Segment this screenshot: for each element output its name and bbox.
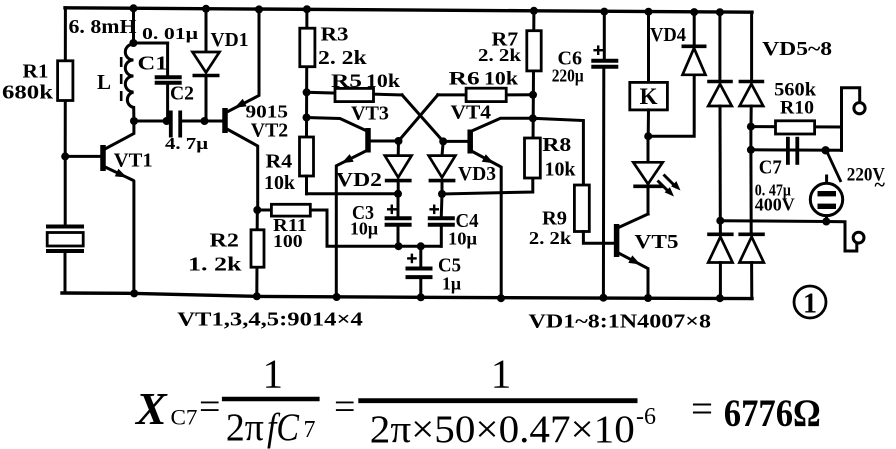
node: K / VD4 / LED junction bbox=[644, 132, 652, 140]
node: VT3 emitter on 0V rail bbox=[333, 293, 341, 301]
node: C7/R10/lamp junction bbox=[821, 146, 829, 154]
svg-text:VT4: VT4 bbox=[451, 102, 492, 124]
svg-text:K: K bbox=[640, 84, 658, 109]
svg-text:400V: 400V bbox=[755, 195, 795, 215]
resistor R4 bbox=[300, 137, 314, 176]
relay coil K bbox=[647, 12, 650, 83]
wire: VD3 node to R8 bottom bbox=[442, 178, 533, 194]
node: R2 bottom on 0V rail bbox=[253, 292, 261, 300]
wire: R10 right lead down to C7 wire bbox=[840, 127, 843, 150]
node: R3 top on +V rail bbox=[303, 5, 311, 13]
wire: R4 bottom to VD2 cathode node bbox=[307, 192, 399, 195]
svg-text:2π×50×0.47×10: 2π×50×0.47×10 bbox=[370, 408, 635, 449]
svg-text:2. 2k: 2. 2k bbox=[529, 228, 572, 248]
node: bridge left column on +V rail bbox=[716, 8, 724, 16]
resistor R2 bbox=[255, 210, 259, 296]
svg-text:VD1~8:1N4007×8: VD1~8:1N4007×8 bbox=[529, 311, 712, 333]
resistor R5 bbox=[307, 92, 402, 95]
svg-text:R10: R10 bbox=[780, 98, 814, 119]
svg-text:1: 1 bbox=[803, 289, 817, 320]
terminal B (220V input) bbox=[853, 232, 864, 243]
svg-text:2. 2k: 2. 2k bbox=[478, 45, 521, 65]
wire: VT4 collector node to R9 bbox=[533, 118, 584, 185]
svg-text:680k: 680k bbox=[2, 81, 54, 103]
svg-text:=: = bbox=[334, 386, 355, 428]
diode VD4 bbox=[683, 48, 706, 75]
node: C5 top junction bbox=[417, 242, 425, 250]
crystal B (quartz resonator) bbox=[64, 156, 67, 226]
resistor R1 bbox=[64, 8, 67, 157]
diode VD3 bbox=[442, 141, 443, 155]
svg-text:C7: C7 bbox=[759, 157, 782, 179]
svg-text:VD3: VD3 bbox=[458, 163, 496, 185]
node: bridge left bottom on 0V rail bbox=[716, 294, 724, 302]
svg-text:6776Ω: 6776Ω bbox=[724, 392, 821, 435]
wire: C3-bottom to C4-bottom link bbox=[399, 245, 442, 248]
svg-text:10k: 10k bbox=[366, 71, 400, 92]
node: L-top / C1 branch bbox=[129, 39, 137, 47]
svg-text:10μ: 10μ bbox=[448, 229, 477, 249]
resistor R10 bbox=[751, 125, 842, 128]
wire: lamp bottom to bridge AC (left) bbox=[720, 219, 826, 223]
svg-text:R3: R3 bbox=[321, 24, 349, 46]
node: C7 left junction bbox=[747, 146, 755, 154]
node: C3 bottom junction bbox=[395, 242, 403, 250]
svg-text:-6: -6 bbox=[636, 404, 656, 430]
wire: top rail end to right bridge column bbox=[750, 12, 753, 80]
resistor R3 bbox=[305, 9, 308, 137]
svg-text:VT5: VT5 bbox=[635, 231, 679, 253]
svg-text:1. 2k: 1. 2k bbox=[188, 254, 243, 276]
svg-text:R2: R2 bbox=[210, 230, 239, 252]
LED (light emitting diode) bbox=[647, 136, 650, 162]
svg-text:VD1: VD1 bbox=[211, 29, 249, 51]
node: R3/VT3-collector junction bbox=[303, 114, 311, 122]
wire: C2 to VT2 base bbox=[180, 120, 223, 123]
node: VT4 emitter on 0V rail bbox=[497, 294, 505, 302]
node: VD3 cathode / R8 / C4 junction bbox=[438, 190, 446, 198]
resistor R9 bbox=[574, 185, 589, 232]
resistor R11 bbox=[257, 209, 327, 212]
wire: R11 to C3-bottom node bbox=[327, 210, 399, 246]
capacitor C7 (0.47u 400V) bbox=[751, 148, 842, 152]
node: lamp bottom junction bbox=[822, 218, 830, 226]
node: VT3 base / VD2 anode node bbox=[395, 137, 403, 145]
svg-text:C7: C7 bbox=[171, 405, 198, 430]
node: R3/R5 junction bbox=[303, 88, 311, 96]
svg-text:X: X bbox=[134, 383, 168, 434]
resistor R8 bbox=[525, 138, 541, 178]
svg-text:L: L bbox=[97, 70, 111, 94]
svg-text:=: = bbox=[691, 388, 713, 431]
svg-text:VD5~8: VD5~8 bbox=[762, 38, 832, 60]
capacitor C3 (10u electrolytic) bbox=[397, 194, 400, 216]
svg-text:1: 1 bbox=[263, 351, 284, 397]
capacitor C2 bbox=[169, 111, 173, 138]
transistor VT3 (9014) bbox=[365, 128, 371, 153]
wire: terminal B lead bbox=[826, 222, 857, 252]
svg-text:VT1: VT1 bbox=[114, 150, 153, 172]
transistor VT1 (9014) bbox=[100, 145, 106, 171]
wire: bottom 0V rail bbox=[62, 293, 752, 299]
diode VD8 (bridge, lower-right) bbox=[739, 237, 763, 263]
wire: R9 to VT5 base bbox=[583, 232, 614, 244]
capacitor C5 (1u electrolytic) bbox=[419, 246, 422, 266]
node: K top on +V rail bbox=[645, 8, 653, 16]
node: C1 bottom junction bbox=[163, 117, 171, 125]
diode VD7 (bridge, lower-left) bbox=[719, 221, 722, 234]
node: C6 bottom on 0V rail bbox=[599, 294, 607, 302]
diode VD1 bbox=[205, 9, 208, 52]
diode VD5 (bridge, upper-left) bbox=[718, 12, 721, 80]
node: VT4 base / VD3 anode node bbox=[439, 137, 447, 145]
wire: VD4 anode wire bbox=[648, 75, 694, 136]
node: VD2 cathode / R4 / C3 junction bbox=[394, 190, 402, 198]
svg-text:R8: R8 bbox=[542, 134, 571, 156]
svg-text:10k: 10k bbox=[484, 69, 518, 90]
node: C6 top on +V rail bbox=[600, 8, 608, 16]
capacitor C1 bbox=[133, 42, 167, 45]
node: C5 bottom on 0V rail bbox=[417, 293, 425, 301]
svg-text:9015: 9015 bbox=[246, 101, 289, 121]
wire: terminal A lead bbox=[842, 88, 860, 127]
svg-text:R5: R5 bbox=[331, 71, 362, 92]
node: R10 left junction bbox=[747, 123, 755, 131]
svg-text:VD4: VD4 bbox=[650, 24, 686, 46]
node: VD4 cathode on +V rail bbox=[690, 8, 698, 16]
svg-text:2. 2k: 2. 2k bbox=[318, 47, 368, 69]
svg-text:0. 01μ: 0. 01μ bbox=[142, 24, 199, 43]
svg-text:R6: R6 bbox=[449, 69, 480, 90]
wire: right bridge column mid bbox=[749, 127, 752, 150]
capacitor C6 (220u electrolytic) bbox=[603, 12, 606, 59]
svg-text:220μ: 220μ bbox=[552, 66, 584, 86]
svg-text:2π: 2π bbox=[226, 406, 264, 449]
terminal A (220V input) bbox=[854, 103, 865, 114]
svg-text:=: = bbox=[199, 386, 220, 428]
node: VT2 emitter on +V rail bbox=[255, 5, 263, 13]
node: VD1 bottom / VT2 base wire bbox=[201, 117, 209, 125]
svg-text:C2: C2 bbox=[170, 83, 194, 105]
node: rail/L junction bbox=[130, 4, 138, 12]
svg-text:6. 8mH: 6. 8mH bbox=[69, 16, 137, 38]
transistor VT2 (9015) bbox=[222, 108, 228, 133]
node: VT1 emitter on 0V rail bbox=[130, 289, 138, 297]
transistor VT5 (9014) bbox=[647, 186, 650, 214]
neon indicator lamp bbox=[825, 176, 828, 184]
wire: VT1 base wire bbox=[65, 155, 101, 158]
svg-text:R1: R1 bbox=[23, 61, 49, 83]
figure number (1) circled bbox=[794, 286, 826, 318]
inductor L bbox=[125, 44, 133, 108]
svg-text:~: ~ bbox=[875, 174, 886, 196]
svg-text:1μ: 1μ bbox=[442, 274, 461, 294]
node: R7/R6 junction bbox=[529, 91, 537, 99]
node: R7 top on +V rail bbox=[530, 7, 538, 15]
capacitor C4 (10u electrolytic) bbox=[440, 194, 444, 216]
diode VD2 bbox=[397, 141, 400, 156]
wire: R6 to VT3 base (cross-coupling) bbox=[399, 95, 438, 141]
svg-text:fC: fC bbox=[267, 406, 300, 449]
svg-text:10μ: 10μ bbox=[350, 219, 378, 239]
wire: VT4 collector wire bbox=[471, 118, 534, 131]
node: R1/crystal/VT1-base junction bbox=[61, 152, 69, 160]
node: R7/VT4-collector/R9 junction bbox=[529, 114, 537, 122]
wire: rail to L top bbox=[132, 8, 135, 43]
wire: right bridge column to lower diode bbox=[749, 150, 752, 234]
wire: R5 to VT4 base (cross-coupling) bbox=[402, 95, 443, 141]
wire: L bottom to C2 bbox=[134, 120, 170, 123]
svg-text:VT2: VT2 bbox=[251, 120, 288, 142]
diode VD6 (bridge, upper-right) bbox=[740, 84, 764, 106]
svg-text:VD2: VD2 bbox=[336, 169, 382, 191]
wire: top +V rail bbox=[65, 8, 752, 12]
svg-text:7: 7 bbox=[304, 417, 316, 443]
node: VT2 collector / R2 / R11 junction bbox=[253, 206, 261, 214]
node: L bottom / VT1 collector junction bbox=[130, 117, 138, 125]
node: bridge AC node (left) to lamp wire bbox=[716, 217, 724, 225]
svg-text:R9: R9 bbox=[542, 208, 567, 230]
resistor R6 bbox=[438, 93, 533, 96]
svg-text:10k: 10k bbox=[545, 158, 577, 180]
label: 220V~ with leader line bbox=[828, 153, 842, 182]
transistor VT4 (9014) bbox=[467, 130, 473, 154]
svg-text:C1: C1 bbox=[138, 53, 168, 75]
resistor R7 bbox=[533, 11, 534, 178]
node: VT5 emitter on 0V rail bbox=[644, 294, 652, 302]
node: VD1 top on +V rail bbox=[202, 5, 210, 13]
svg-text:VT3: VT3 bbox=[351, 103, 389, 125]
svg-text:VT1,3,4,5:9014×4: VT1,3,4,5:9014×4 bbox=[177, 309, 362, 331]
svg-text:10k: 10k bbox=[264, 172, 296, 194]
svg-text:1: 1 bbox=[491, 351, 512, 397]
svg-text:100: 100 bbox=[273, 231, 303, 251]
wire: VT3 collector wire bbox=[307, 118, 368, 132]
svg-text:4. 7μ: 4. 7μ bbox=[165, 134, 208, 153]
svg-text:R4: R4 bbox=[266, 151, 293, 173]
